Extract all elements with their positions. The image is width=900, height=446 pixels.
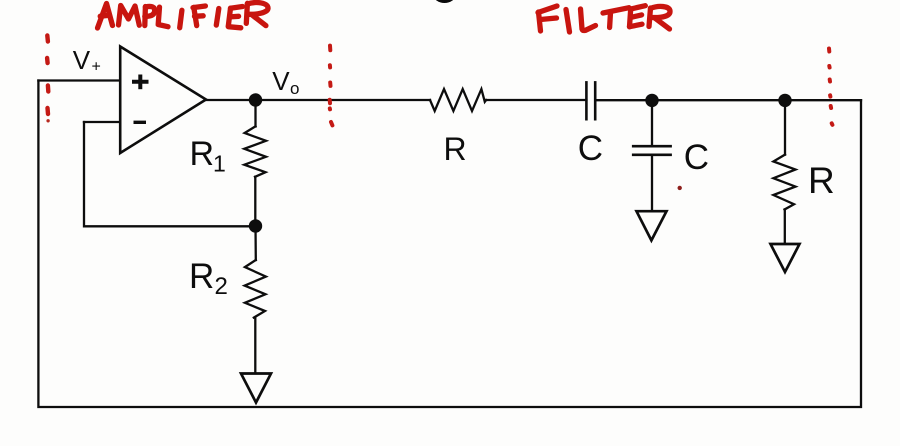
svg-text:V: V (73, 45, 91, 75)
svg-text:R: R (808, 160, 835, 201)
svg-text:R: R (190, 135, 215, 173)
svg-text:V: V (272, 66, 290, 96)
svg-text:o: o (290, 79, 299, 98)
svg-text:C: C (578, 129, 603, 168)
svg-text:+: + (92, 59, 101, 76)
svg-text:R: R (189, 257, 214, 296)
svg-text:1: 1 (213, 151, 226, 177)
svg-text:2: 2 (215, 273, 228, 300)
svg-text:R: R (444, 131, 467, 167)
svg-text:C: C (684, 138, 709, 177)
